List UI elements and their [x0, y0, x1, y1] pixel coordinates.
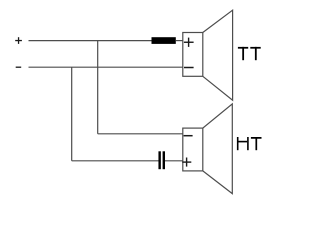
- node + input terminal label: [15, 37, 22, 44]
- wire horizontal to HT minus terminal: [98, 133, 183, 135]
- wire inductor to TT plus terminal: [176, 40, 183, 42]
- speaker HT plus terminal mark: [182, 158, 191, 167]
- wire + input to inductor: [29, 40, 153, 42]
- speaker TT cone: [203, 10, 233, 100]
- speaker TT plus terminal mark: [184, 38, 194, 47]
- label TT: [238, 47, 261, 60]
- wire horizontal to capacitor: [72, 160, 159, 162]
- speaker HT minus terminal mark: [184, 135, 193, 137]
- wire vertical from + bus down to HT branch: [97, 41, 99, 134]
- capacitor C1: [158, 151, 165, 169]
- speaker HT body: [183, 128, 203, 171]
- node - input terminal label: [16, 66, 22, 68]
- wire vertical from - bus down to capacitor branch: [71, 67, 73, 161]
- speaker TT minus terminal mark: [184, 67, 194, 69]
- speaker TT body: [183, 33, 203, 77]
- speaker HT cone: [203, 104, 233, 194]
- inductor L1: [152, 37, 176, 44]
- wire - input to TT minus terminal: [29, 66, 184, 68]
- wire capacitor to HT plus terminal: [165, 160, 183, 162]
- label HT: [237, 137, 262, 150]
